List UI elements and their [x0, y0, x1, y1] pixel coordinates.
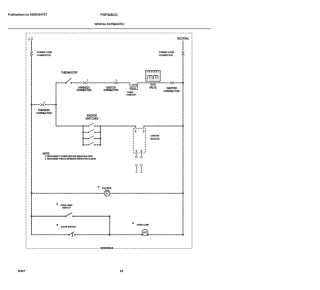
module bottom pins: [135, 150, 142, 153]
power cord connector (L1 bus): [30, 52, 33, 56]
svg-text:CONNECTOR: CONNECTOR: [36, 112, 52, 115]
module top pins: [135, 130, 145, 133]
svg-text:1: 1: [44, 102, 45, 104]
svg-text:13: 13: [120, 269, 124, 273]
svg-text:IGNITOR: IGNITOR: [127, 95, 136, 97]
svg-text:1: 1: [87, 80, 88, 82]
ignitor switch blades: [88, 123, 94, 145]
svg-text:CONNECTOR: CONNECTOR: [164, 90, 180, 93]
oven lamp switch line (solid): [32, 213, 110, 217]
electrode connectors below module: [135, 153, 142, 172]
svg-text:POWER CORD: POWER CORD: [159, 52, 175, 54]
thermostat switch: [65, 78, 72, 83]
door switch: [69, 232, 75, 237]
svg-text:FGF348CG: FGF348CG: [101, 13, 118, 17]
ignitor connector (right): [170, 82, 174, 84]
harness connector (main line): [83, 82, 87, 84]
svg-text:L1: L1: [28, 37, 33, 41]
page frame (dashed border): [26, 33, 192, 249]
svg-text:Publications for 5995424757: Publications for 5995424757: [8, 13, 47, 17]
oven lamp: [142, 229, 148, 235]
wires: green dashes: [32, 41, 184, 235]
svg-text:SWITCH: SWITCH: [62, 208, 71, 210]
header rule: [8, 28, 211, 30]
svg-text:OVEN LAMP: OVEN LAMP: [137, 224, 150, 227]
svg-text:CONNECTOR: CONNECTOR: [159, 55, 173, 57]
svg-text:SWITCHES: SWITCHES: [85, 118, 98, 121]
wires: pink dashes between: [32, 41, 184, 235]
clock motor: [104, 190, 110, 197]
svg-text:MODULE: MODULE: [151, 138, 161, 140]
svg-text:NEUTRAL: NEUTRAL: [177, 38, 189, 41]
svg-text:HARNESS: HARNESS: [78, 87, 90, 90]
ignitor connector (main line): [114, 82, 118, 84]
power cord connector (neutral bus): [182, 52, 185, 56]
harness connector (lower, on y104.7): [40, 104, 44, 106]
svg-text:THERMOSTAT: THERMOSTAT: [61, 72, 78, 75]
svg-text:OVEN LAMP: OVEN LAMP: [60, 204, 73, 207]
svg-text:OVEN: OVEN: [127, 92, 134, 94]
svg-text:CONNECTOR: CONNECTOR: [104, 90, 119, 92]
svg-text:2: 2: [116, 80, 117, 82]
bullet + label DOOR SWITCH: [56, 224, 58, 226]
svg-text:316048424: 316048424: [100, 246, 114, 250]
svg-text:IGNITOR: IGNITOR: [151, 136, 160, 138]
svg-text:B467: B467: [18, 269, 26, 273]
svg-text:CONNECTOR: CONNECTOR: [37, 55, 51, 57]
bullet + label OVEN LAMP (right): [132, 222, 134, 224]
oven ignitor (hatched): [130, 83, 137, 90]
svg-text:DOOR SWITCH: DOOR SWITCH: [61, 226, 77, 228]
svg-text:2. GROUNDED THRU A SEPARATE WI: 2. GROUNDED THRU A SEPARATE WIRE IN PLUG…: [45, 158, 97, 161]
svg-text:CLOCK: CLOCK: [102, 186, 112, 190]
ignitor module box: [134, 128, 146, 153]
bullet + label OVEN LAMP SWITCH: [56, 203, 58, 205]
bullet + label CLOCK: [98, 186, 100, 188]
svg-text:CONNECTOR: CONNECTOR: [77, 90, 92, 92]
svg-text:POWER CORD: POWER CORD: [37, 52, 53, 54]
gas valve: [146, 70, 160, 81]
svg-text:WIRING SCHEMATIC: WIRING SCHEMATIC: [95, 22, 126, 26]
svg-text:VALVE: VALVE: [149, 86, 157, 89]
